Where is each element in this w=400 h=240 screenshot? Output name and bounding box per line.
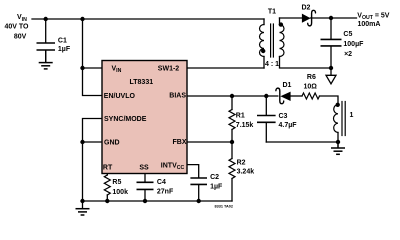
svg-text:1µF: 1µF [210, 184, 223, 191]
svg-text:SYNC/MODE: SYNC/MODE [104, 116, 147, 123]
svg-text:D1: D1 [283, 82, 292, 89]
svg-text:1: 1 [350, 112, 354, 119]
svg-text:R5: R5 [112, 179, 121, 186]
svg-text:C2: C2 [210, 174, 219, 181]
svg-text:80V: 80V [14, 34, 27, 41]
svg-text:4.7µF: 4.7µF [279, 122, 298, 129]
svg-text:100µF: 100µF [343, 41, 364, 48]
svg-text:R6: R6 [307, 74, 316, 81]
svg-text:R2: R2 [237, 160, 246, 167]
svg-text:10Ω: 10Ω [304, 84, 318, 91]
svg-text:3.24k: 3.24k [237, 169, 255, 176]
svg-text:×2: ×2 [344, 51, 352, 58]
svg-text:40V TO: 40V TO [5, 24, 30, 31]
svg-text:R1: R1 [236, 113, 245, 120]
svg-text:C4: C4 [157, 179, 166, 186]
svg-text:7.15k: 7.15k [236, 122, 254, 129]
svg-text:RT: RT [103, 165, 113, 172]
svg-text:27nF: 27nF [157, 188, 174, 195]
svg-text:C1: C1 [58, 37, 67, 44]
svg-text:8331 TA02: 8331 TA02 [215, 204, 234, 208]
svg-text:GND: GND [104, 139, 120, 146]
svg-text:T1: T1 [268, 9, 276, 16]
svg-text:100mA: 100mA [358, 21, 381, 28]
svg-text:4 : 1: 4 : 1 [265, 61, 279, 68]
svg-text:SS: SS [139, 165, 149, 172]
svg-text:BIAS: BIAS [169, 93, 186, 100]
svg-text:1µF: 1µF [58, 46, 71, 53]
svg-text:100k: 100k [112, 189, 128, 196]
svg-text:D2: D2 [302, 5, 311, 12]
svg-text:C3: C3 [279, 113, 288, 120]
svg-text:LT8331: LT8331 [130, 79, 154, 86]
svg-text:FBX: FBX [173, 139, 187, 146]
svg-text:EN/UVLO: EN/UVLO [104, 93, 136, 100]
svg-text:C5: C5 [343, 31, 352, 38]
svg-text:SW1-2: SW1-2 [158, 66, 180, 73]
